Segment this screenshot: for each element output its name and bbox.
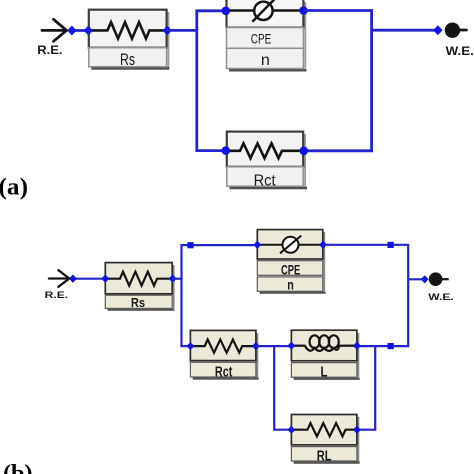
CPE box U-CPE (a) (227, 0, 307, 72)
node diamond Rs right (b) (169, 275, 177, 283)
resistor Rs (b) (105, 263, 174, 311)
wire top rail right + right vertical (a) (304, 11, 372, 151)
node diamond RL left (b) (287, 426, 295, 434)
wire R.E. to Rs (b) (73, 278, 106, 280)
wire left vertical (b) (182, 245, 258, 346)
node diamond at R.E. lead (a) (67, 26, 76, 36)
svg-text:n: n (261, 52, 270, 69)
wire left vertical + top rail (a) (197, 11, 227, 151)
node diamond CPE left (b) (253, 241, 261, 249)
wire junction down-left to RL (b) (274, 346, 291, 430)
junction square top-left (b) (187, 242, 193, 248)
wire top rail right + right vertical (b) (323, 245, 408, 346)
node diamond R.E. lead (b) (69, 275, 77, 283)
electrode W.E. dot (a) (445, 23, 468, 38)
resistor Rct (b) (190, 330, 258, 380)
resistor Rs (a) (89, 10, 170, 70)
resistor Rct (a) (227, 132, 307, 190)
node diamond Rs right (a) (163, 26, 172, 36)
svg-text:RL: RL (317, 447, 332, 464)
svg-text:CPE: CPE (281, 263, 300, 278)
node diamond Rct left (b) (186, 342, 194, 350)
node diamond Rct right (b) (252, 342, 260, 350)
svg-text:W.E.: W.E. (428, 292, 454, 302)
node diamond W.E. lead (b) (421, 275, 429, 283)
junction square top-right (b) (388, 242, 394, 248)
svg-text:Rct: Rct (215, 364, 233, 380)
wire to W.E. (a) (372, 29, 438, 32)
node diamond W.E. lead (a) (433, 25, 442, 35)
node circle CPE left (a) (222, 7, 231, 16)
svg-text:n: n (287, 278, 294, 293)
electrode R.E. (b) (49, 270, 69, 287)
wire RL right vertical (b) (357, 346, 375, 430)
wire R.E. to Rs (a) (72, 29, 89, 32)
CPE box U-CPE (b) (257, 230, 325, 294)
node circle CPE right (a) (299, 6, 308, 15)
svg-text:Rs: Rs (131, 296, 145, 310)
node circle Rct right (a) (300, 147, 309, 156)
junction square bottom (b) (388, 343, 394, 349)
node diamond Rs left (a) (84, 26, 93, 36)
svg-text:R.E.: R.E. (37, 43, 62, 57)
wire Rs to left vertical (b) (172, 278, 182, 280)
node diamond RL right (b) (353, 426, 361, 434)
electrode W.E. dot (b) (429, 272, 449, 286)
svg-text:R.E.: R.E. (45, 290, 69, 300)
electrode R.E. (a) (42, 19, 67, 41)
node diamond L left (b) (287, 342, 295, 350)
svg-text:(a): (a) (0, 175, 28, 201)
wire Rct to L (b) (256, 345, 292, 347)
svg-text:Rct: Rct (254, 172, 277, 189)
svg-text:L: L (321, 364, 328, 381)
svg-text:CPE: CPE (251, 31, 272, 47)
svg-text:(b): (b) (3, 461, 33, 474)
svg-text:W.E.: W.E. (446, 46, 474, 58)
node diamond CPE right (b) (319, 241, 327, 249)
wire Rs to left junction (a) (167, 29, 197, 32)
svg-text:Rs: Rs (120, 50, 135, 69)
resistor RL (b) (291, 415, 359, 465)
node diamond Rs left (b) (101, 275, 109, 283)
wire to W.E. (b) (408, 278, 424, 280)
inductor L (b) (291, 330, 359, 380)
node diamond L right (b) (353, 342, 361, 350)
node circle Rct left (a) (222, 146, 231, 155)
